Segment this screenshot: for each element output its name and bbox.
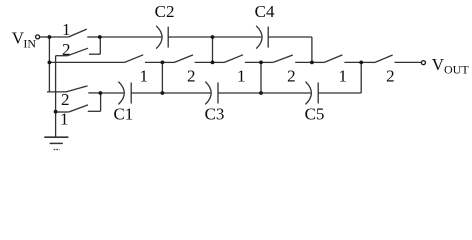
svg-text:2: 2 (386, 66, 395, 85)
svg-text:2: 2 (61, 90, 70, 109)
svg-text:1: 1 (139, 66, 148, 85)
svg-text:1: 1 (60, 110, 69, 129)
svg-text:2: 2 (187, 66, 196, 85)
svg-text:OUT: OUT (444, 63, 469, 77)
svg-text:1: 1 (237, 66, 246, 85)
svg-text:C1: C1 (113, 104, 133, 123)
svg-text:1: 1 (62, 20, 71, 39)
svg-text:1: 1 (338, 66, 347, 85)
svg-text:C4: C4 (255, 2, 275, 21)
svg-text:C3: C3 (205, 104, 225, 123)
svg-text:2: 2 (287, 66, 296, 85)
svg-text:C2: C2 (155, 2, 175, 21)
svg-text:C5: C5 (305, 104, 325, 123)
svg-text:V: V (432, 55, 445, 74)
svg-text:2: 2 (62, 40, 71, 59)
svg-text:IN: IN (23, 37, 36, 51)
